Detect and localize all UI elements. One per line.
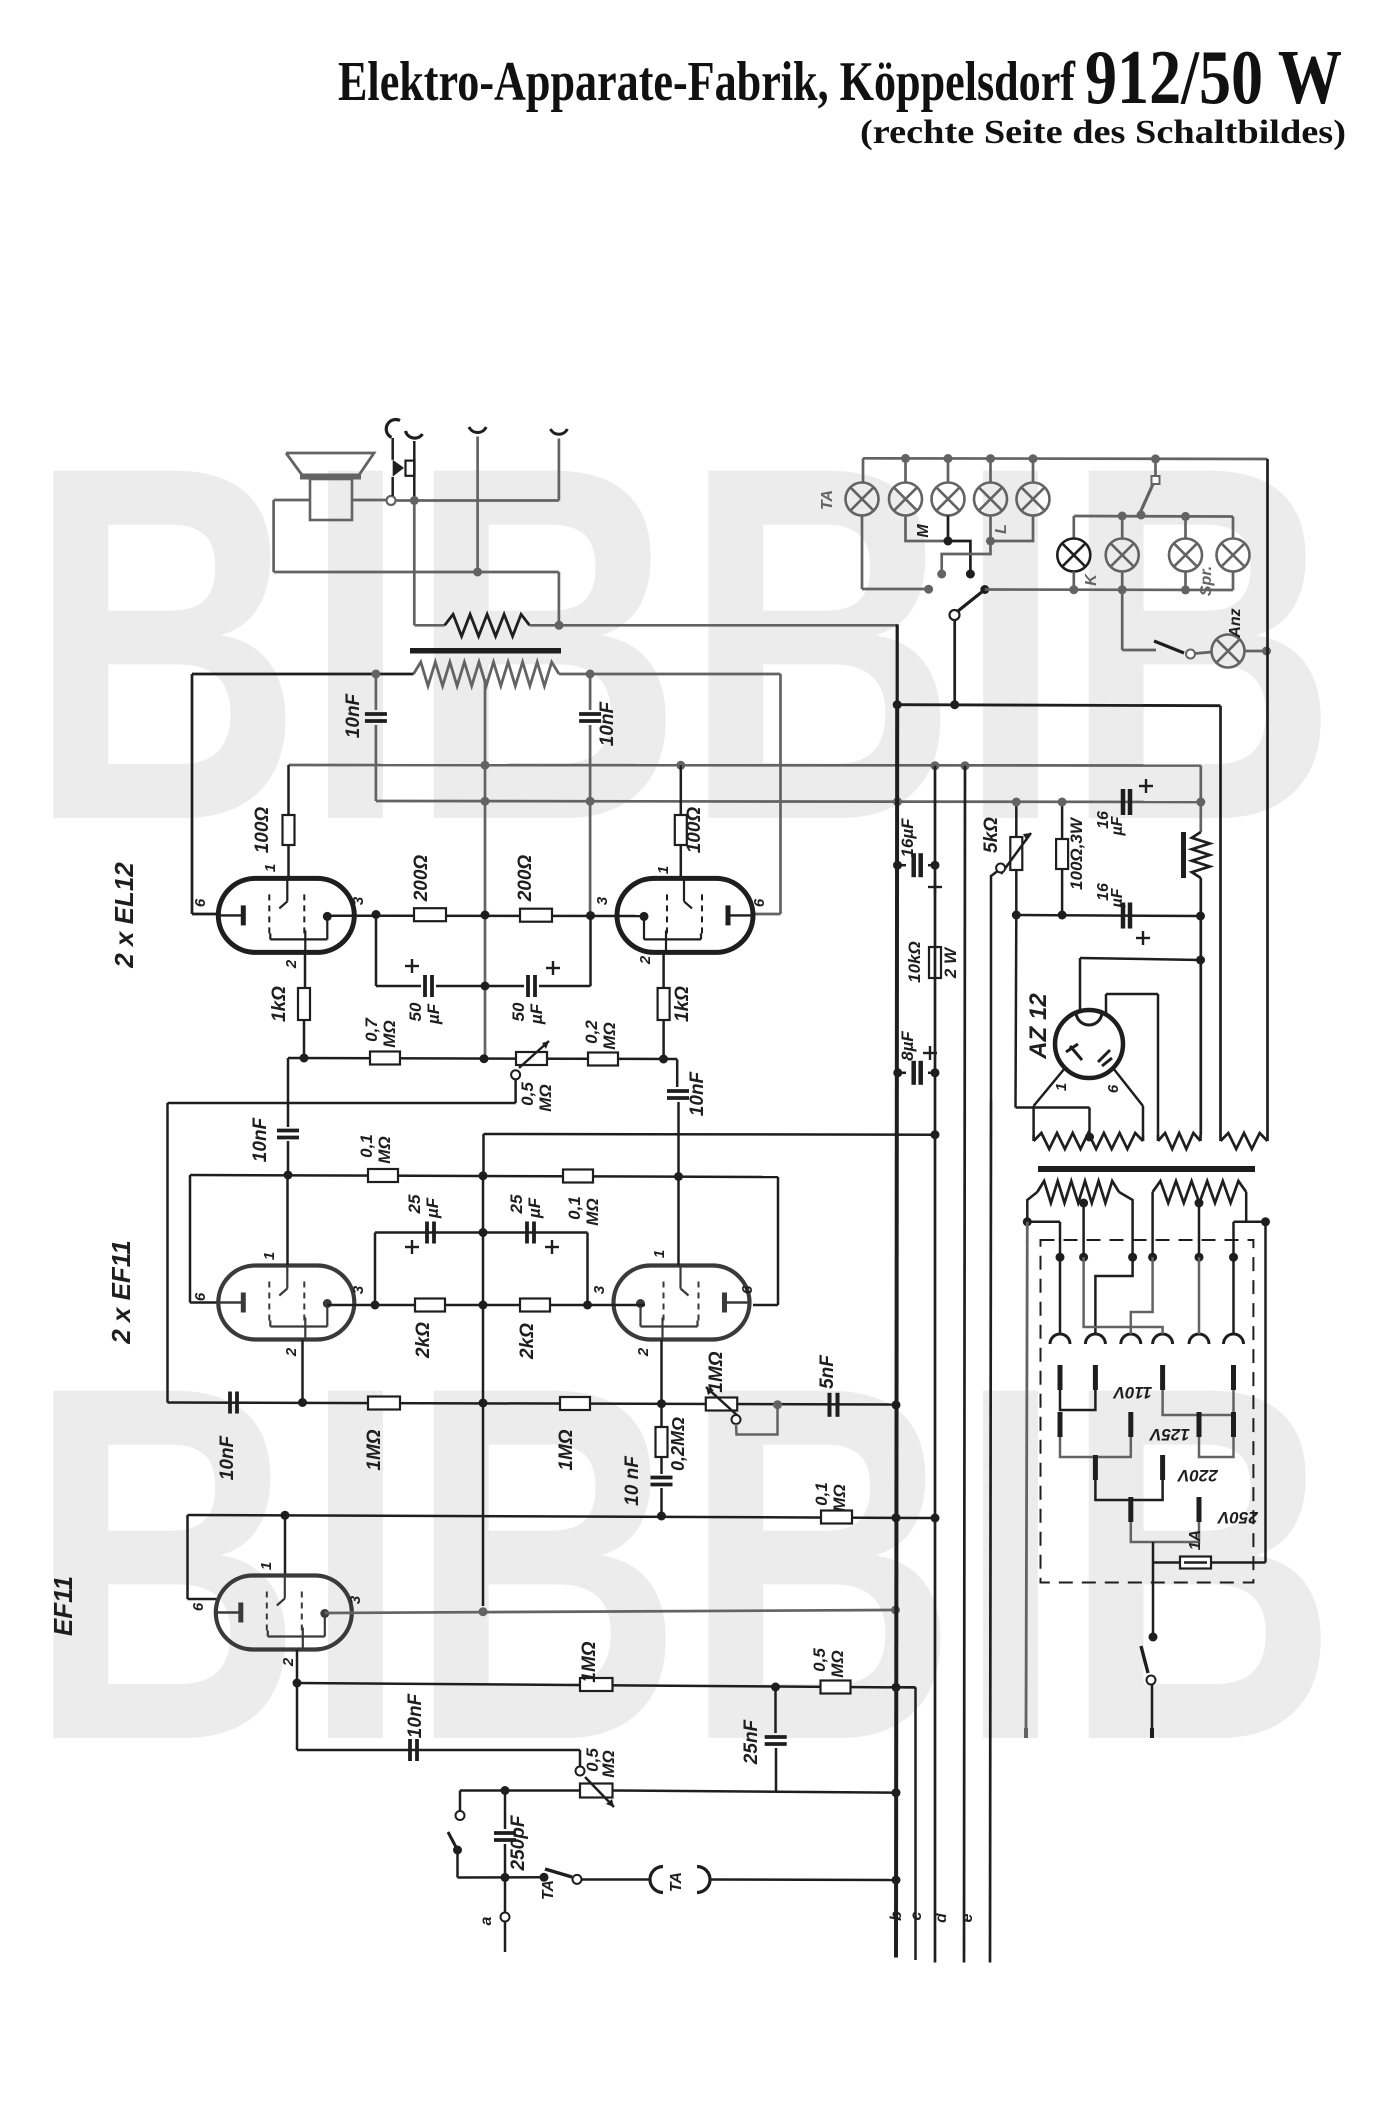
junction lamp3 top bbox=[944, 454, 953, 463]
label R2 1kohm bbox=[269, 986, 290, 1022]
lamp5 bbox=[1017, 483, 1050, 516]
switch S1 bbox=[448, 1811, 465, 1855]
junction grid2 ct bbox=[479, 1399, 488, 1408]
wire K2 to Anz switch bbox=[1122, 590, 1156, 650]
svg-text:AZ 12: AZ 12 bbox=[1025, 993, 1052, 1060]
junction y1515 busA bbox=[892, 1513, 901, 1522]
label EF11 v5 bbox=[48, 1576, 78, 1636]
wire HT bus y705 bbox=[897, 705, 1220, 706]
junction W1 center bbox=[1085, 1133, 1094, 1142]
label R1 100ohm bbox=[252, 807, 273, 854]
label V1 pin1 bbox=[262, 864, 279, 872]
junction C15 busA bbox=[893, 861, 902, 870]
svg-text:2 x EL12: 2 x EL12 bbox=[109, 862, 139, 969]
wire V3 pin1 feed bbox=[286, 1175, 289, 1266]
wire lamp line y589 bbox=[985, 588, 1233, 591]
wire Spr1 bottom bbox=[1181, 572, 1190, 595]
wire tap1 bbox=[1059, 1257, 1062, 1334]
svg-text:µF: µF bbox=[1109, 815, 1126, 836]
junction y1134 c-bus bbox=[931, 1130, 940, 1139]
junction C16 busC bbox=[931, 1068, 940, 1077]
svg-text:0,1: 0,1 bbox=[565, 1196, 584, 1220]
svg-text:16µF: 16µF bbox=[898, 818, 917, 858]
svg-text:200Ω: 200Ω bbox=[515, 855, 536, 903]
svg-text:10nF: 10nF bbox=[217, 1434, 238, 1480]
svg-text:2 x EF11: 2 x EF11 bbox=[106, 1240, 136, 1345]
junction tap row bbox=[1056, 1253, 1239, 1262]
svg-text:0,5: 0,5 bbox=[810, 1648, 829, 1672]
resistor R14 1Mohm bbox=[560, 1397, 590, 1410]
svg-text:2: 2 bbox=[283, 1347, 300, 1357]
capacitor C7 25uF bbox=[427, 1222, 434, 1244]
wire V4 pin2 bbox=[660, 1340, 663, 1404]
capacitor C14 250pF bbox=[494, 1791, 516, 1878]
wire V6 pin1 bbox=[1034, 1068, 1065, 1135]
svg-text:10nF: 10nF bbox=[405, 1692, 426, 1738]
wire S5 to Anz bbox=[1195, 652, 1212, 654]
label C4 50uF bbox=[509, 1002, 546, 1025]
capacitor C16 8uF bbox=[898, 1061, 935, 1085]
wire W4 left end bbox=[1023, 1192, 1060, 1257]
resistor R9 0.1Mohm bbox=[368, 1169, 398, 1182]
fuse F1 1A bbox=[1153, 1542, 1266, 1569]
svg-text:0,2: 0,2 bbox=[582, 1020, 601, 1044]
potentiometer P3 0.5Mohm bbox=[576, 1750, 615, 1807]
junction C11 bottom bbox=[657, 1512, 666, 1521]
wire EL cathode to c-bus y1134 bbox=[484, 1134, 936, 1175]
junction cathode ct bbox=[481, 982, 490, 991]
label 2xEF11 bbox=[106, 1240, 136, 1345]
label R20 0.1Mohm bbox=[812, 1482, 849, 1512]
junction anode C3 bbox=[372, 910, 381, 919]
winding W5 primary bbox=[1153, 1181, 1247, 1203]
wire terminal b drop bbox=[896, 1687, 916, 1960]
svg-text:1: 1 bbox=[258, 1562, 275, 1570]
resistor R4 1kohm bbox=[658, 952, 670, 1058]
svg-text:10 nF: 10 nF bbox=[622, 1455, 643, 1506]
wire P3 left y1790 bbox=[460, 1791, 580, 1812]
junction screen feed c-bus bbox=[931, 761, 940, 770]
label 220V bbox=[1176, 1466, 1218, 1485]
junction anode right bbox=[583, 1301, 592, 1310]
svg-text:2 W: 2 W bbox=[941, 946, 960, 979]
svg-text:EF11: EF11 bbox=[48, 1576, 78, 1636]
lamp Spr1 bbox=[1169, 539, 1202, 572]
svg-text:µF: µF bbox=[525, 1197, 544, 1219]
capacitor C8 25uF bbox=[527, 1222, 534, 1244]
resistor R13 1Mohm bbox=[368, 1397, 400, 1410]
svg-text:0,1: 0,1 bbox=[357, 1134, 376, 1158]
label lamp K bbox=[1083, 573, 1100, 586]
svg-text:50: 50 bbox=[406, 1002, 425, 1021]
junction C14 top bbox=[501, 1786, 510, 1795]
label 125V bbox=[1148, 1425, 1189, 1444]
svg-text:1: 1 bbox=[261, 1252, 278, 1260]
svg-text:100Ω: 100Ω bbox=[252, 807, 273, 854]
label P2 1Mohm bbox=[706, 1351, 727, 1392]
label C18 16uF bbox=[1095, 883, 1126, 909]
resistor R5 200ohm bbox=[414, 908, 446, 921]
winding W1 rectifier filament bbox=[1034, 1133, 1143, 1149]
junction B+ C2 bbox=[586, 797, 595, 806]
svg-text:3: 3 bbox=[591, 1285, 608, 1294]
label R17 0.5Mohm bbox=[810, 1648, 847, 1678]
terminal d bbox=[933, 1912, 950, 1923]
wire speaker right lead bbox=[352, 499, 386, 502]
junction y1792 busA bbox=[892, 1788, 901, 1797]
label C8 25uF bbox=[507, 1194, 544, 1219]
svg-text:2kΩ: 2kΩ bbox=[517, 1323, 538, 1360]
resistor R1 100ohm bbox=[283, 765, 295, 879]
capacitor C6 10nF bbox=[277, 1058, 299, 1175]
link 110V right bbox=[1160, 1365, 1236, 1415]
label C12 25nF bbox=[741, 1718, 762, 1765]
label AZ12 bbox=[1025, 993, 1052, 1060]
junction R19 bottom bbox=[1058, 911, 1067, 920]
svg-text:220V: 220V bbox=[1176, 1466, 1218, 1485]
wire W5 right end bbox=[1234, 1192, 1271, 1257]
label V4 pin6 bbox=[739, 1285, 756, 1294]
svg-text:TA: TA bbox=[540, 1880, 557, 1900]
lamp3 bbox=[932, 483, 965, 516]
wire grid2 y1683 bbox=[297, 1683, 916, 1688]
resistor R16 1Mohm bbox=[580, 1678, 613, 1691]
plus C7 bbox=[405, 1240, 419, 1254]
svg-text:c: c bbox=[908, 1911, 925, 1920]
resistor R8 0.2Mohm bbox=[588, 1053, 618, 1066]
svg-text:200Ω: 200Ω bbox=[411, 855, 432, 903]
svg-text:6: 6 bbox=[190, 1602, 207, 1611]
label C11 10nF bbox=[622, 1455, 643, 1506]
svg-text:2: 2 bbox=[283, 959, 300, 969]
label C10 5nF bbox=[817, 1354, 838, 1389]
plus C8 bbox=[545, 1240, 559, 1254]
svg-text:L: L bbox=[993, 524, 1010, 534]
svg-text:1MΩ: 1MΩ bbox=[706, 1351, 727, 1392]
label R3 100ohm bbox=[684, 807, 705, 854]
label C17 16uF bbox=[1095, 811, 1126, 837]
capacitor C17 16uF bbox=[1123, 789, 1130, 815]
terminal e bbox=[959, 1913, 976, 1922]
resistor R2 1kohm bbox=[298, 952, 310, 1058]
svg-text:MΩ: MΩ bbox=[600, 1022, 619, 1049]
wire S1 to y1877 bbox=[458, 1850, 545, 1878]
lamp K2 bbox=[1106, 539, 1139, 572]
svg-text:1MΩ: 1MΩ bbox=[364, 1429, 385, 1470]
svg-text:MΩ: MΩ bbox=[830, 1484, 849, 1511]
wire tap4 bbox=[1084, 1257, 1163, 1334]
svg-text:MΩ: MΩ bbox=[536, 1084, 555, 1111]
wire grid line y1515 bbox=[188, 1515, 936, 1599]
jack terminal circle bbox=[387, 496, 396, 505]
junction switch S3 top bbox=[1151, 454, 1160, 463]
resistor R19 100ohm 3W bbox=[1056, 802, 1068, 915]
junction W5 center bbox=[1195, 1199, 1204, 1258]
svg-text:d: d bbox=[933, 1912, 950, 1923]
junction B+ choke bbox=[1196, 798, 1205, 807]
junction antenna bus bbox=[473, 568, 482, 577]
label 110V bbox=[1112, 1383, 1152, 1402]
label C1 10nF bbox=[343, 692, 364, 738]
wire plug to jack bbox=[391, 438, 394, 496]
junction choke y958 bbox=[1196, 956, 1205, 965]
label R18 10kohm bbox=[905, 941, 924, 983]
switch S5 Anz bbox=[1154, 641, 1195, 659]
wire tap2 bbox=[1095, 1257, 1132, 1334]
label C6 10nF bbox=[250, 1116, 271, 1162]
label V5 pin3 bbox=[347, 1595, 364, 1604]
svg-text:2: 2 bbox=[637, 955, 654, 965]
antenna socket A2 bbox=[550, 429, 567, 501]
svg-text:3: 3 bbox=[347, 1595, 364, 1604]
svg-text:1kΩ: 1kΩ bbox=[672, 986, 693, 1022]
wire L contact bbox=[937, 541, 990, 579]
junction lamp2 top bbox=[901, 454, 910, 463]
junction TA busA bbox=[892, 1876, 901, 1885]
watermark row 2 bbox=[28, 1282, 1338, 1846]
svg-text:Spr.: Spr. bbox=[1198, 566, 1215, 596]
wire mains lead left bbox=[1026, 1222, 1027, 1738]
label lamp Anz bbox=[1227, 608, 1244, 638]
potentiometer P1 0.5Mohm bbox=[511, 1041, 549, 1079]
wire V6 anode left bbox=[1080, 958, 1201, 1013]
svg-text:0,2MΩ: 0,2MΩ bbox=[668, 1417, 688, 1471]
label F1 1A bbox=[1187, 1530, 1204, 1550]
wire screen line y1232 bbox=[375, 1233, 588, 1306]
junction 25nF top bbox=[771, 1683, 780, 1692]
wire tap5 bbox=[1198, 1257, 1201, 1334]
junction pin2 V3 bbox=[298, 1398, 307, 1407]
svg-text:M: M bbox=[915, 524, 932, 538]
wire bus E bbox=[990, 872, 997, 1963]
junction S4 y705 bbox=[950, 700, 959, 709]
junction lamp5 top bbox=[1029, 454, 1038, 463]
svg-text:1kΩ: 1kΩ bbox=[269, 986, 290, 1022]
svg-text:(rechte Seite des Schaltbildes: (rechte Seite des Schaltbildes) bbox=[860, 114, 1346, 151]
junction screen ct bbox=[479, 1228, 488, 1237]
label C16 8uF bbox=[898, 1031, 917, 1061]
label V5 pin6 bbox=[190, 1602, 207, 1611]
wire V6 pin6 bbox=[1113, 1068, 1143, 1135]
resistor speaker field coil bbox=[445, 614, 530, 636]
transformer secondary winding bbox=[414, 662, 560, 686]
junction choke bottom bbox=[1196, 912, 1205, 921]
terminal b bbox=[888, 1911, 905, 1921]
watermark row 1 bbox=[28, 362, 1338, 926]
svg-text:0,7: 0,7 bbox=[362, 1017, 381, 1042]
wire V3 pin2 bbox=[301, 1340, 304, 1403]
svg-text:3: 3 bbox=[594, 896, 611, 905]
junction pin2 V4 bbox=[657, 1399, 666, 1408]
junction W4 center bbox=[1079, 1199, 1088, 1258]
junction anode ct bbox=[481, 911, 490, 920]
svg-text:3: 3 bbox=[350, 1285, 367, 1294]
junction grid2 busA2 bbox=[892, 1683, 901, 1692]
svg-text:6: 6 bbox=[192, 898, 209, 907]
label V2 pin2 bbox=[637, 955, 654, 965]
capacitor C18 16uF bbox=[1123, 903, 1130, 929]
plus C15 bbox=[928, 880, 942, 894]
resistor R12 2kohm bbox=[520, 1299, 550, 1312]
junction pin2 V5 bbox=[293, 1679, 302, 1688]
wire bus C bbox=[934, 766, 937, 1963]
lamp Anz bbox=[1212, 635, 1245, 668]
svg-text:10nF: 10nF bbox=[597, 700, 618, 746]
wire V5 pin1 bbox=[284, 1515, 287, 1576]
svg-text:25: 25 bbox=[507, 1194, 526, 1214]
switch S4 rotary bbox=[950, 585, 990, 620]
label R14 1Mohm bbox=[556, 1429, 577, 1470]
junction TA switch bbox=[540, 1873, 549, 1882]
label C15 16uF bbox=[898, 818, 917, 858]
tube V3 EF11 bbox=[218, 1266, 354, 1340]
label V4 pin2 bbox=[635, 1347, 652, 1357]
label R8 0.2Mohm bbox=[582, 1020, 619, 1050]
junction grid ct bbox=[479, 1171, 488, 1180]
resistor R10 0.1Mohm bbox=[563, 1170, 593, 1183]
svg-text:110V: 110V bbox=[1112, 1383, 1152, 1402]
potentiometer P4 5kohm bbox=[996, 802, 1031, 915]
junction jack bus bbox=[410, 496, 419, 505]
svg-text:125V: 125V bbox=[1148, 1425, 1189, 1444]
wire right vertical bbox=[1266, 459, 1269, 1135]
junction R4 bottom bbox=[659, 1055, 668, 1064]
svg-text:MΩ: MΩ bbox=[599, 1750, 618, 1777]
svg-text:6: 6 bbox=[739, 1285, 756, 1294]
junction V5 pin1 feed bbox=[281, 1511, 290, 1520]
resistor R17 0.5Mohm bbox=[821, 1681, 851, 1694]
wire lamp TA bottom bbox=[862, 516, 933, 594]
junction grid2 busA bbox=[892, 1400, 901, 1409]
wire P1 wiper bbox=[168, 1079, 516, 1403]
phone plug bbox=[393, 460, 415, 477]
link 125V right bbox=[1197, 1412, 1237, 1457]
junction anode V5 busA bbox=[891, 1606, 900, 1615]
label R9 0.1Mohm bbox=[357, 1134, 394, 1164]
plus C18 bbox=[1136, 931, 1150, 945]
label lamp L bbox=[993, 524, 1010, 534]
junction screen feed d-bus bbox=[961, 761, 970, 770]
junction K2 top bbox=[1118, 512, 1127, 539]
label V3 pin1 bbox=[261, 1252, 278, 1260]
svg-text:1MΩ: 1MΩ bbox=[579, 1641, 600, 1682]
wire tap6 bbox=[1232, 1257, 1235, 1334]
wire cathode line y1058 bbox=[288, 1058, 677, 1059]
plus C17 bbox=[1139, 779, 1153, 793]
label R5 200ohm bbox=[411, 855, 432, 903]
switch S6 mains bbox=[1141, 1563, 1158, 1739]
label P1 0.5Mohm bbox=[518, 1082, 555, 1112]
junction anode ct2 bbox=[479, 1301, 488, 1310]
svg-text:10nF: 10nF bbox=[687, 1070, 708, 1116]
svg-text:5nF: 5nF bbox=[817, 1354, 838, 1389]
switch S2 TA bbox=[545, 1869, 582, 1884]
label V2 pin3 bbox=[594, 896, 611, 905]
junction 10nF C1 top bbox=[371, 670, 380, 679]
junction C14 bottom bbox=[501, 1873, 510, 1882]
svg-text:10nF: 10nF bbox=[250, 1116, 271, 1162]
svg-text:6: 6 bbox=[1105, 1084, 1122, 1093]
label R18 2W bbox=[941, 946, 960, 979]
label P3 0.5Mohm bbox=[583, 1748, 618, 1778]
svg-text:µF: µF bbox=[527, 1003, 546, 1025]
wire bus D bbox=[964, 766, 965, 1963]
svg-text:0,5: 0,5 bbox=[518, 1082, 537, 1106]
label V6 pin1 bbox=[1053, 1083, 1070, 1091]
label S2 TA bbox=[540, 1880, 557, 1900]
transformer core T1 bbox=[1038, 1166, 1255, 1172]
junction bus A y705 bbox=[893, 700, 902, 709]
svg-text:912/50 W: 912/50 W bbox=[1085, 34, 1342, 120]
socket hooks bbox=[1050, 1334, 1244, 1344]
label V1 pin2 bbox=[283, 959, 300, 969]
svg-text:1: 1 bbox=[655, 866, 672, 874]
wire V6 anode right bbox=[1106, 994, 1158, 1135]
label C13 10nF bbox=[405, 1692, 426, 1738]
potentiometer P2 1Mohm bbox=[706, 1387, 741, 1424]
svg-text:µF: µF bbox=[424, 1003, 443, 1025]
wire lamp M bottom bbox=[906, 516, 949, 542]
tube V6 AZ12 bbox=[1055, 1010, 1123, 1078]
label V2 pin1 bbox=[655, 866, 672, 874]
svg-text:100Ω,3W: 100Ω,3W bbox=[1067, 816, 1086, 890]
svg-text:BIBBIB: BIBBIB bbox=[28, 1282, 1338, 1846]
capacitor C15 16uF bbox=[898, 853, 936, 877]
label terminal a bbox=[478, 1916, 495, 1925]
junction P2 wiper bbox=[773, 1400, 782, 1409]
choke L1 bbox=[1181, 766, 1210, 1136]
label V2 pin6 bbox=[751, 898, 768, 907]
resistor R11 2kohm bbox=[415, 1299, 445, 1312]
wire grid right to V4 pin6 bbox=[753, 1177, 778, 1305]
capacitor C11 10nF bbox=[651, 1478, 673, 1517]
svg-text:3: 3 bbox=[350, 896, 367, 905]
label R10 0.1Mohm bbox=[565, 1196, 602, 1226]
lamp TA bbox=[846, 458, 1034, 515]
wire V4 pin1 feed bbox=[677, 1177, 680, 1266]
label V5 pin2 bbox=[280, 1657, 297, 1667]
label V4 pin3 bbox=[591, 1285, 608, 1294]
svg-text:e: e bbox=[959, 1913, 976, 1922]
wire speaker left lead bbox=[274, 500, 310, 572]
antenna socket A1 bbox=[469, 427, 486, 572]
svg-text:K: K bbox=[1083, 573, 1100, 586]
label R7 0.7Mohm bbox=[362, 1017, 399, 1048]
junction grid C6 bbox=[284, 1171, 293, 1180]
label C3 50uF bbox=[406, 1002, 443, 1025]
junction grid C5 bbox=[674, 1172, 683, 1181]
label C9 10nF bbox=[217, 1434, 238, 1480]
svg-text:1: 1 bbox=[1053, 1083, 1070, 1091]
wire EF center column bbox=[482, 1176, 485, 1606]
svg-text:250V: 250V bbox=[1216, 1508, 1258, 1527]
wire grid2 line y1403 bbox=[168, 1403, 896, 1405]
wire W4 right end bbox=[1119, 1192, 1133, 1257]
label lamp M bbox=[915, 524, 932, 538]
terminal a bbox=[501, 1877, 510, 1952]
junction lamp4 top bbox=[986, 454, 995, 463]
wire K lamps top y516 bbox=[1074, 516, 1233, 539]
svg-text:1A: 1A bbox=[1187, 1530, 1204, 1550]
capacitor C5 10nF bbox=[667, 1059, 689, 1176]
svg-text:Anz: Anz bbox=[1227, 608, 1244, 638]
wire B+ line y801 bbox=[376, 801, 1201, 802]
plug hook left bbox=[386, 419, 400, 437]
svg-text:6: 6 bbox=[192, 1292, 209, 1301]
wire field coil to bus A bbox=[530, 624, 898, 627]
resistor R18 10kohm 2W bbox=[929, 947, 941, 978]
svg-text:TA: TA bbox=[819, 490, 836, 510]
